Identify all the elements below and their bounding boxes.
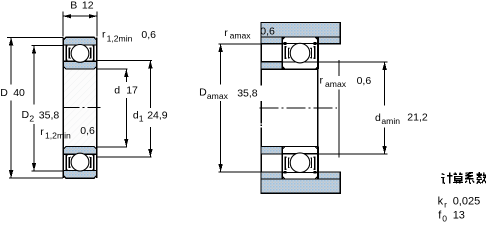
Da extension line bottom bbox=[219, 171, 283, 173]
arrow D2 top bbox=[32, 46, 36, 54]
glyph 数 bbox=[476, 172, 486, 183]
Da extension line top bbox=[219, 43, 283, 45]
dimension line D bbox=[10, 37, 12, 84]
shield top-right bbox=[89, 46, 94, 60]
bearing inner ring band top (right view) bbox=[282, 62, 318, 69]
ra leader upper bbox=[338, 60, 340, 76]
groove notch bottom-left bbox=[284, 171, 287, 174]
d extension line bottom bbox=[97, 146, 127, 148]
ball top (right view) bbox=[290, 43, 310, 63]
groove notch bottom-right bbox=[313, 171, 316, 174]
bearing face lines bottom section bbox=[62, 147, 64, 179]
bottom outer surface line extended left bbox=[9, 177, 63, 179]
groove notch top-right bbox=[313, 42, 316, 45]
shaft right end face bbox=[317, 69, 319, 146]
svg-text:24,9: 24,9 bbox=[147, 110, 168, 122]
svg-text:D: D bbox=[0, 87, 8, 99]
svg-text:k: k bbox=[438, 196, 444, 208]
svg-text:amax: amax bbox=[230, 30, 252, 40]
cage bottom-left bbox=[285, 157, 289, 169]
svg-text:21,2: 21,2 bbox=[407, 112, 428, 124]
bearing face lines top section bbox=[62, 37, 64, 69]
bore right face line bbox=[96, 69, 98, 147]
dimension line d bbox=[125, 69, 127, 82]
cage top-left bbox=[285, 47, 289, 59]
arrow D bottom bbox=[9, 170, 13, 178]
bearing inner ring band bottom (right view) bbox=[282, 147, 318, 154]
arrow D2 bottom bbox=[32, 163, 36, 171]
svg-text:D: D bbox=[199, 87, 207, 99]
dimension line damin bbox=[384, 62, 386, 106]
da extension line bottom bbox=[318, 153, 388, 155]
arrow D top bbox=[9, 37, 13, 45]
svg-text:r: r bbox=[40, 126, 44, 138]
bore left face line bbox=[62, 69, 64, 147]
svg-text:1,2min: 1,2min bbox=[107, 33, 133, 43]
dimension line Damax bbox=[220, 44, 222, 85]
shield top-left bbox=[66, 46, 71, 60]
svg-text:0,025: 0,025 bbox=[453, 196, 481, 208]
svg-text:0,6: 0,6 bbox=[357, 75, 372, 87]
cage top-right bbox=[310, 47, 314, 59]
housing top block bbox=[261, 23, 340, 44]
svg-text:B: B bbox=[70, 0, 77, 12]
arrow d1 bottom bbox=[148, 149, 152, 157]
shaft left boundary line lower bbox=[260, 154, 262, 172]
inner ring bottom band bbox=[63, 147, 97, 155]
bearing outer ring band top (right view) bbox=[282, 37, 318, 44]
arrow Damax bottom bbox=[218, 164, 222, 172]
D2 extension line top bbox=[32, 45, 64, 47]
ball bottom bbox=[71, 153, 89, 171]
d1 extension line top bbox=[97, 59, 152, 61]
shaft left boundary line middle bbox=[260, 69, 262, 85]
svg-text:35,8: 35,8 bbox=[39, 109, 60, 121]
dimension B extension line right bbox=[96, 12, 98, 37]
svg-text:1: 1 bbox=[139, 114, 144, 124]
dimension line B bbox=[63, 15, 97, 17]
svg-text:d: d bbox=[114, 84, 120, 96]
arrow d bottom bbox=[124, 139, 128, 147]
svg-text:r: r bbox=[444, 200, 447, 210]
bearing face lines top section (right view) bbox=[281, 37, 283, 69]
top outer surface line extended left bbox=[7, 36, 63, 38]
d1 extension line bottom bbox=[97, 156, 152, 158]
glyph 系 bbox=[465, 173, 474, 184]
shaft shoulder tab bottom bbox=[261, 147, 282, 154]
svg-text:12: 12 bbox=[82, 0, 94, 12]
svg-text:17: 17 bbox=[126, 84, 138, 96]
heading 计算系数 (drawn strokes) bbox=[441, 172, 486, 183]
outer ring top band bbox=[63, 37, 97, 45]
dimension B extension line left bbox=[62, 12, 64, 37]
arrow d top bbox=[124, 69, 128, 77]
arrow Damax top bbox=[218, 44, 222, 52]
ball top bbox=[71, 45, 89, 63]
arrow B left bbox=[63, 14, 71, 18]
glyph 计 bbox=[441, 173, 452, 184]
bearing face lines bottom section (right view) bbox=[281, 147, 283, 179]
dimension line d1 bbox=[149, 60, 151, 108]
svg-text:r: r bbox=[102, 29, 106, 41]
svg-text:0,6: 0,6 bbox=[141, 29, 156, 41]
svg-text:amin: amin bbox=[381, 116, 400, 126]
centerline right view bbox=[260, 107, 338, 109]
arrow damin top bbox=[382, 62, 386, 70]
outer ring bottom band bbox=[63, 171, 97, 179]
glyph 算 bbox=[453, 172, 463, 183]
svg-text:0,6: 0,6 bbox=[80, 125, 95, 137]
svg-text:amax: amax bbox=[207, 91, 229, 101]
svg-text:0,6: 0,6 bbox=[260, 26, 275, 38]
svg-text:r: r bbox=[224, 27, 228, 39]
shaft shoulder tab top bbox=[261, 62, 282, 69]
arrow B right bbox=[89, 14, 97, 18]
svg-text:13: 13 bbox=[453, 210, 465, 222]
shaft surface line top bbox=[261, 68, 318, 70]
bearing outer ring band bottom (right view) bbox=[282, 172, 318, 179]
ra leader lower bbox=[338, 90, 340, 158]
ball bottom (right view) bbox=[290, 153, 310, 173]
housing bore line top bbox=[261, 36, 340, 38]
shield bottom-right bbox=[89, 155, 94, 169]
bore region hatch bbox=[63, 69, 97, 147]
centerline left view bbox=[63, 107, 101, 109]
arrow d1 top bbox=[148, 60, 152, 68]
housing bore line bottom bbox=[261, 178, 340, 180]
d extension line top (bore) bbox=[97, 68, 128, 70]
svg-text:0: 0 bbox=[442, 213, 447, 223]
arrow damin bottom bbox=[382, 146, 386, 154]
housing bottom block bbox=[261, 172, 340, 193]
svg-text:2: 2 bbox=[29, 113, 34, 123]
svg-text:35,8: 35,8 bbox=[237, 87, 258, 99]
D2 extension line bottom bbox=[32, 170, 64, 172]
inner ring top band bbox=[63, 61, 97, 69]
dimension line D2 bbox=[33, 46, 35, 105]
svg-text:40: 40 bbox=[13, 87, 25, 99]
svg-text:1,2min: 1,2min bbox=[45, 130, 71, 140]
da extension line top bbox=[318, 61, 388, 63]
shaft left boundary line upper bbox=[260, 44, 262, 62]
svg-text:d: d bbox=[375, 112, 381, 124]
groove notch top-left bbox=[284, 42, 287, 45]
svg-text:D: D bbox=[22, 109, 30, 121]
svg-text:r: r bbox=[320, 75, 324, 87]
cage bottom-right bbox=[310, 157, 314, 169]
shield bottom-left bbox=[66, 155, 71, 169]
shaft surface line bottom bbox=[261, 146, 318, 148]
svg-text:amax: amax bbox=[325, 79, 347, 89]
